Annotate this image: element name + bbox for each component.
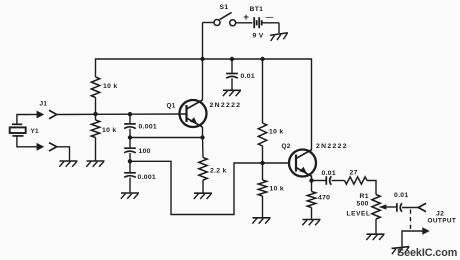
wire <box>332 180 345 182</box>
label OUTPUT <box>428 218 457 225</box>
connector J1 pin1 jack <box>49 110 57 118</box>
label 2N2222 <box>210 102 242 109</box>
node <box>128 159 132 163</box>
svg-text:S1: S1 <box>220 4 229 11</box>
svg-text:2N2222: 2N2222 <box>210 102 242 109</box>
label 0.01 <box>241 73 255 80</box>
wire <box>262 196 264 217</box>
node <box>128 135 132 139</box>
resistor 10k lower-right <box>258 180 266 196</box>
svg-text:470: 470 <box>318 195 330 202</box>
potentiometer R1 500 <box>372 195 380 220</box>
svg-text:27: 27 <box>350 170 358 177</box>
wire <box>17 115 29 125</box>
wire <box>262 59 264 123</box>
connector J1 pin2 plug <box>30 143 44 151</box>
resistor 470 <box>307 192 315 208</box>
wire <box>236 22 253 24</box>
label 100 <box>139 148 151 155</box>
svg-text:Q1: Q1 <box>167 103 176 110</box>
node <box>200 135 204 139</box>
svg-text:OUTPUT: OUTPUT <box>428 218 457 225</box>
label BT1 <box>250 6 264 13</box>
capacitor C 0.01 bypass <box>226 74 238 79</box>
wire <box>312 180 327 182</box>
svg-text:10 k: 10 k <box>102 127 116 134</box>
svg-text:LEVEL: LEVEL <box>347 210 371 217</box>
svg-text:10 k: 10 k <box>103 83 117 90</box>
wire <box>402 207 418 209</box>
wire Q1 base <box>57 113 187 116</box>
wire <box>57 147 70 161</box>
connector J2 ground pin arrow <box>402 227 430 246</box>
resistor R 10k lower-left <box>91 120 99 138</box>
pot wiper arrow <box>379 204 397 209</box>
label plus <box>243 12 249 23</box>
node <box>260 161 264 165</box>
label Q2 <box>282 143 291 150</box>
label R1 <box>360 193 369 200</box>
wire <box>95 98 97 115</box>
wire <box>311 208 313 219</box>
node <box>93 112 97 116</box>
label 27 <box>350 170 358 177</box>
svg-text:10 k: 10 k <box>269 129 283 136</box>
node <box>200 57 204 61</box>
wire <box>95 114 97 120</box>
resistor R 10k upper-left <box>91 77 99 98</box>
capacitor C 0.001 lower <box>124 173 136 178</box>
svg-text:—: — <box>266 13 274 22</box>
node <box>230 57 234 61</box>
crystal Y1 <box>10 124 26 136</box>
wire <box>311 181 313 192</box>
svg-text:J1: J1 <box>40 101 48 108</box>
wire Q1 collector <box>202 59 204 100</box>
ground <box>252 218 270 224</box>
label J2 <box>436 211 444 218</box>
ground <box>270 33 289 41</box>
node <box>128 112 132 116</box>
capacitor C 0.01 coupling <box>326 176 331 185</box>
wire <box>129 178 131 193</box>
resistor 2.2k <box>199 158 207 181</box>
transistor Q1 <box>180 100 207 127</box>
connector J2 jack <box>418 203 426 211</box>
ground <box>366 234 384 240</box>
svg-text:2N2222: 2N2222 <box>316 143 348 150</box>
svg-text:0.01: 0.01 <box>241 73 255 80</box>
wire <box>262 23 279 33</box>
label 10k <box>102 127 116 134</box>
svg-text:0.01: 0.01 <box>322 170 336 177</box>
wire Q1 emitter <box>202 127 204 138</box>
capacitor C 0.01 output <box>397 203 402 212</box>
label J1 <box>40 101 48 108</box>
wire <box>129 138 131 149</box>
svg-text:J2: J2 <box>436 211 444 218</box>
label Y1 <box>31 128 40 135</box>
wire <box>231 78 233 89</box>
connector J1 pin2 jack <box>49 143 57 151</box>
ground <box>121 193 139 199</box>
ground <box>391 247 410 255</box>
wire <box>95 138 97 161</box>
wire <box>202 138 205 158</box>
label Q1 <box>167 103 176 110</box>
wire <box>202 180 204 193</box>
svg-text:100: 100 <box>139 148 151 155</box>
wire <box>129 129 131 138</box>
transistor Q2 <box>289 150 316 177</box>
svg-text:+: + <box>243 12 249 23</box>
wire <box>17 136 30 147</box>
ground <box>194 193 212 199</box>
watermark SeekIC.com <box>397 247 457 259</box>
label 10k <box>269 129 283 136</box>
label 0.01 <box>394 192 408 199</box>
ground <box>86 161 104 167</box>
wire <box>367 181 376 195</box>
ground <box>223 90 241 96</box>
wire feedback detour <box>130 161 289 214</box>
label 0.001 <box>138 174 157 181</box>
svg-text:500: 500 <box>357 201 369 208</box>
svg-text:Y1: Y1 <box>31 128 40 135</box>
label 10k <box>270 186 284 193</box>
svg-text:Q2: Q2 <box>282 143 291 150</box>
svg-text:9 V: 9 V <box>253 33 264 40</box>
switch S1 <box>214 12 236 25</box>
ground <box>59 161 77 167</box>
svg-text:10 k: 10 k <box>270 186 284 193</box>
label S1 <box>220 4 229 11</box>
wire bus <box>96 59 312 150</box>
wire <box>129 153 131 161</box>
shield dashed wire <box>410 210 412 230</box>
wire feedback upper <box>130 137 203 139</box>
svg-text:BT1: BT1 <box>250 6 264 13</box>
svg-text:R1: R1 <box>360 193 369 200</box>
svg-text:2.2 k: 2.2 k <box>210 168 227 175</box>
wire <box>375 219 377 234</box>
svg-text:SeekIC.com: SeekIC.com <box>397 247 457 259</box>
wire <box>129 114 131 124</box>
node <box>260 57 264 61</box>
resistor 10k upper-right <box>258 123 266 146</box>
wire <box>262 163 264 180</box>
battery BT1 <box>254 17 262 28</box>
label 2N2222 <box>316 143 348 150</box>
ground <box>302 220 320 226</box>
svg-text:0.01: 0.01 <box>394 192 408 199</box>
label 0.001 <box>139 124 158 131</box>
label 500 <box>357 201 369 208</box>
label minus <box>266 13 274 22</box>
svg-text:0.001: 0.001 <box>139 124 158 131</box>
label 0.01 <box>322 170 336 177</box>
label 470 <box>318 195 330 202</box>
svg-text:0.001: 0.001 <box>138 174 157 181</box>
connector J1 pin1 plug <box>29 111 44 119</box>
node <box>309 178 313 182</box>
wire <box>262 146 264 163</box>
label 9V <box>253 33 264 40</box>
label 2.2k <box>210 168 227 175</box>
wire Q2 emitter <box>311 177 313 181</box>
wire <box>203 23 215 60</box>
label LEVEL <box>347 210 371 217</box>
capacitor C 0.001 upper <box>124 124 136 129</box>
resistor 27 <box>345 177 368 184</box>
label 10k <box>103 83 117 90</box>
capacitor C 100 <box>124 148 136 153</box>
wire <box>129 161 131 173</box>
wire <box>231 59 233 74</box>
